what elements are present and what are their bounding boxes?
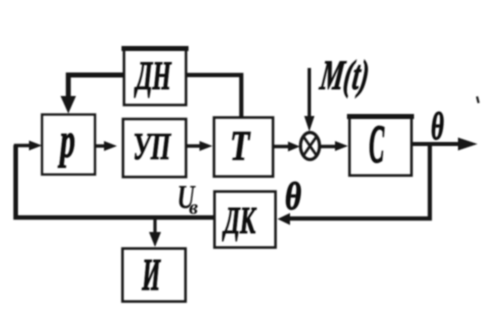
svg-text:θ: θ	[285, 175, 301, 218]
svg-text:M(t): M(t)	[317, 52, 372, 98]
svg-text:Т: Т	[230, 124, 251, 170]
svg-text:в: в	[189, 197, 198, 219]
svg-text:θ: θ	[431, 105, 444, 148]
svg-text:С: С	[369, 114, 384, 174]
svg-text:И: И	[141, 248, 161, 300]
svg-text:УП: УП	[133, 125, 171, 167]
svg-text:ДН: ДН	[134, 55, 172, 99]
svg-text:р: р	[58, 112, 75, 168]
svg-text:ДК: ДК	[222, 199, 257, 241]
